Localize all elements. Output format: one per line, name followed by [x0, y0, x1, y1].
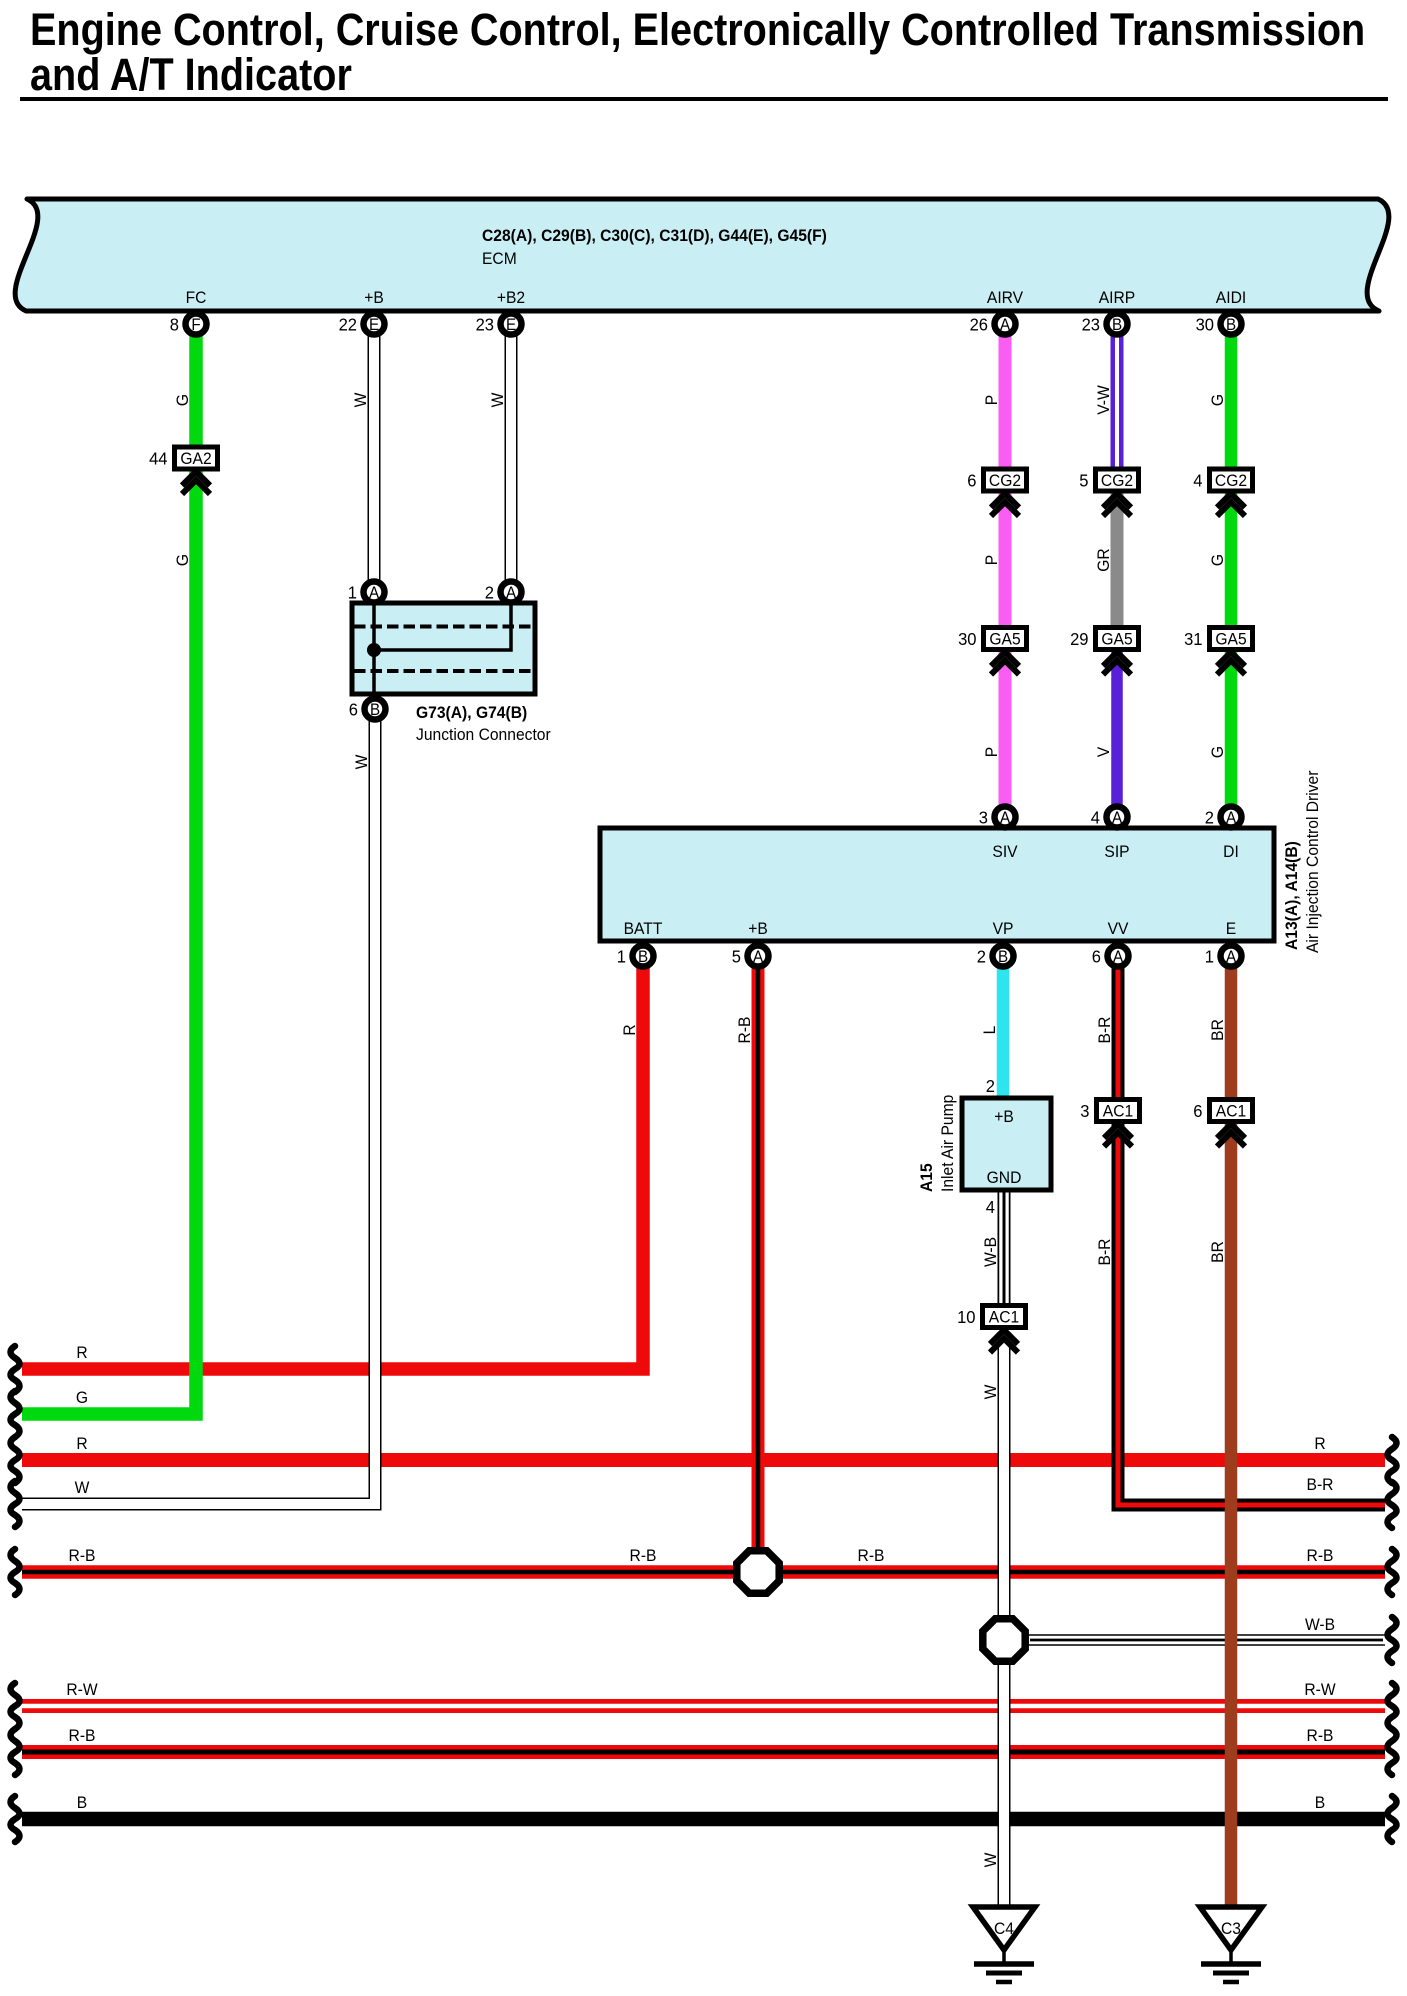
connector 3 AC1 — [1080, 1100, 1139, 1122]
svg-text:L: L — [980, 1026, 999, 1035]
svg-text:B: B — [638, 948, 648, 966]
A13 side label — [1282, 770, 1322, 953]
svg-text:R: R — [76, 1434, 87, 1453]
svg-text:V: V — [1094, 747, 1113, 758]
wire W-B A15 GND to AC1 — [998, 1190, 1011, 1308]
svg-text:F: F — [191, 316, 201, 334]
connector 29 GA5 — [1070, 628, 1138, 650]
svg-text:B: B — [998, 948, 1008, 966]
svg-text:E: E — [506, 316, 516, 334]
svg-text:SIV: SIV — [992, 842, 1017, 861]
svg-text:A: A — [753, 948, 764, 966]
svg-text:W: W — [981, 1852, 1000, 1867]
svg-text:29: 29 — [1070, 628, 1088, 649]
svg-text:R-B: R-B — [1307, 1546, 1334, 1565]
svg-text:1: 1 — [1205, 946, 1214, 967]
A13 pin 1B BATT — [617, 946, 654, 967]
svg-text:B: B — [1226, 316, 1236, 334]
svg-text:SIP: SIP — [1104, 842, 1129, 861]
wire W-B bus — [1004, 1636, 1387, 1644]
svg-text:R-B: R-B — [69, 1726, 96, 1745]
svg-text:DI: DI — [1223, 842, 1239, 861]
svg-text:AC1: AC1 — [1103, 1102, 1133, 1121]
svg-text:A13(A), A14(B): A13(A), A14(B) — [1282, 841, 1301, 950]
svg-text:W-B: W-B — [981, 1237, 1000, 1267]
A13/A14 Air Injection Control Driver box — [600, 828, 1274, 941]
wire P AIRV — [999, 324, 1012, 817]
ECM pin 23E — [476, 314, 522, 335]
svg-text:B-R: B-R — [1095, 1016, 1114, 1043]
svg-text:R-W: R-W — [1304, 1680, 1336, 1699]
wire R bus to A13 BATT — [22, 956, 643, 1369]
svg-text:6: 6 — [349, 699, 358, 720]
A13 pin 2A DI — [1205, 807, 1242, 828]
svg-text:W: W — [488, 392, 507, 407]
junction connector pin 6B — [349, 699, 386, 720]
svg-text:C3: C3 — [1221, 1919, 1241, 1938]
A13 pin 5A +B — [732, 946, 769, 967]
ECM pin 26A — [970, 314, 1016, 335]
junction connector pin 2A — [485, 582, 522, 603]
svg-text:GA2: GA2 — [180, 449, 211, 468]
svg-text:3: 3 — [1080, 1100, 1089, 1121]
svg-text:AC1: AC1 — [1216, 1102, 1246, 1121]
chevron below 29 GA5 — [1103, 652, 1131, 675]
svg-text:B-R: B-R — [1307, 1475, 1334, 1494]
ECM pin 23B — [1082, 314, 1128, 335]
svg-text:W: W — [352, 754, 371, 769]
connector 6 AC1 — [1193, 1100, 1252, 1122]
connector 5 CG2 — [1079, 469, 1138, 491]
svg-text:BR: BR — [1208, 1019, 1227, 1041]
rotated wire color labels — [173, 385, 1227, 1868]
wire R bus full width — [22, 1453, 1385, 1467]
svg-text:P: P — [982, 395, 1001, 406]
svg-text:G: G — [1208, 746, 1227, 758]
svg-text:A: A — [1226, 948, 1237, 966]
svg-text:A: A — [1226, 809, 1237, 827]
wire W below AC1 to ground C4 — [998, 1332, 1011, 1907]
junction octagon on W-B bus — [983, 1619, 1025, 1661]
svg-text:R-W: R-W — [66, 1680, 98, 1699]
svg-text:VV: VV — [1108, 919, 1129, 938]
wire W ECM pin 22E to junction pin 1A — [368, 324, 381, 592]
svg-text:W-B: W-B — [1305, 1615, 1335, 1634]
ECM pin 22E — [339, 314, 385, 335]
svg-text:26: 26 — [970, 314, 988, 335]
svg-text:4: 4 — [1193, 470, 1203, 491]
svg-text:AIRV: AIRV — [987, 288, 1023, 307]
svg-text:A: A — [1000, 316, 1011, 334]
svg-text:B-R: B-R — [1095, 1238, 1114, 1265]
A15 side label — [917, 1095, 957, 1192]
bus color labels — [66, 1343, 1336, 1812]
svg-text:R: R — [1314, 1434, 1325, 1453]
svg-text:AIDI: AIDI — [1216, 288, 1246, 307]
svg-text:8: 8 — [170, 314, 179, 335]
svg-text:A: A — [506, 584, 517, 602]
svg-text:G: G — [1208, 554, 1227, 566]
wire B bus — [22, 1812, 1385, 1827]
wire W ECM pin 23E to junction pin 2A — [505, 324, 518, 592]
svg-text:2: 2 — [485, 582, 494, 603]
chevron below 3 AC1 — [1104, 1124, 1132, 1147]
A13 pin 3A SIV — [979, 807, 1016, 828]
svg-text:2: 2 — [1205, 807, 1214, 828]
svg-text:R: R — [620, 1024, 639, 1035]
svg-text:1: 1 — [617, 946, 626, 967]
svg-text:B: B — [77, 1793, 88, 1812]
svg-text:BATT: BATT — [624, 919, 663, 938]
wire V-W AIRP upper — [1111, 324, 1124, 478]
svg-text:Engine Control, Cruise Control: Engine Control, Cruise Control, Electron… — [30, 5, 1365, 55]
ground C3 — [1200, 1907, 1262, 1982]
svg-text:FC: FC — [186, 288, 207, 307]
svg-text:ECM: ECM — [482, 249, 517, 268]
svg-text:6: 6 — [967, 470, 976, 491]
svg-text:P: P — [982, 747, 1001, 758]
svg-text:R-B: R-B — [630, 1546, 657, 1565]
wire W bus to junction connector pin 6B — [20, 709, 375, 1509]
svg-text:GA5: GA5 — [1101, 630, 1132, 649]
svg-text:R-B: R-B — [69, 1546, 96, 1565]
ECM pin 8F — [170, 314, 207, 335]
svg-text:G: G — [173, 554, 192, 566]
svg-text:GR: GR — [1094, 548, 1113, 572]
junction connector pin 1A — [348, 582, 385, 603]
ECM box — [15, 199, 1389, 311]
svg-text:6: 6 — [1092, 946, 1101, 967]
svg-text:W: W — [351, 392, 370, 407]
connector 30 GA5 — [958, 628, 1026, 650]
svg-text:C4: C4 — [994, 1919, 1014, 1938]
svg-text:Air Injection Control Driver: Air Injection Control Driver — [1303, 770, 1322, 953]
svg-text:E: E — [1226, 919, 1237, 938]
svg-text:31: 31 — [1184, 628, 1202, 649]
svg-text:B: B — [1112, 316, 1122, 334]
svg-text:CG2: CG2 — [1101, 471, 1133, 490]
svg-text:23: 23 — [1082, 314, 1100, 335]
connector 6 CG2 — [967, 469, 1026, 491]
svg-text:+B: +B — [748, 919, 768, 938]
svg-text:+B2: +B2 — [497, 288, 525, 307]
A15 Inlet Air Pump box — [962, 1075, 1051, 1217]
svg-text:G: G — [173, 394, 192, 406]
svg-text:R-B: R-B — [735, 1016, 754, 1043]
svg-text:W: W — [75, 1478, 90, 1497]
svg-text:A: A — [1112, 809, 1123, 827]
chevron below 30 GA5 — [991, 652, 1019, 675]
A13 pin 2B VP — [977, 946, 1014, 967]
wire GR AIRP middle — [1111, 478, 1124, 640]
svg-text:G73(A), G74(B): G73(A), G74(B) — [416, 703, 527, 722]
svg-text:R-B: R-B — [1307, 1726, 1334, 1745]
title rule — [20, 97, 1388, 101]
svg-text:2: 2 — [986, 1075, 995, 1096]
svg-text:10: 10 — [957, 1306, 975, 1327]
wire R-B bus lower — [22, 1745, 1385, 1759]
wire B-R A13 VV to right edge — [1118, 956, 1385, 1505]
svg-text:GA5: GA5 — [1215, 630, 1246, 649]
ground C4 — [973, 1907, 1035, 1982]
svg-text:B: B — [370, 701, 380, 719]
junction connector label — [416, 703, 551, 744]
svg-text:+B: +B — [994, 1107, 1014, 1126]
junction connector G73/G74 box — [352, 603, 535, 694]
svg-text:CG2: CG2 — [1215, 471, 1247, 490]
svg-text:AIRP: AIRP — [1099, 288, 1136, 307]
wire R-B bus — [22, 1565, 1385, 1579]
junction octagon on R-B bus — [737, 1551, 779, 1593]
svg-text:30: 30 — [1196, 314, 1214, 335]
svg-text:C28(A), C29(B), C30(C), C31(D): C28(A), C29(B), C30(C), C31(D), G44(E), … — [482, 226, 827, 245]
wire L VP to A15 — [997, 956, 1010, 1098]
svg-text:23: 23 — [476, 314, 494, 335]
wire G bus / ECM FC wire — [22, 324, 196, 1414]
svg-text:A: A — [1000, 809, 1011, 827]
torn edges right — [1388, 1437, 1397, 1842]
chevron below 10 AC1 — [990, 1330, 1018, 1353]
svg-text:22: 22 — [339, 314, 357, 335]
svg-text:4: 4 — [986, 1196, 996, 1217]
chevron below GA2 — [182, 472, 210, 495]
connector 10 AC1 — [957, 1306, 1025, 1328]
svg-text:4: 4 — [1091, 807, 1101, 828]
ECM pin 30B — [1196, 314, 1242, 335]
wire G AIDI — [1225, 324, 1238, 817]
connector 4 CG2 — [1193, 469, 1252, 491]
svg-text:6: 6 — [1193, 1100, 1202, 1121]
svg-text:44: 44 — [149, 448, 168, 469]
svg-text:W: W — [981, 1384, 1000, 1399]
svg-text:B: B — [1315, 1793, 1326, 1812]
svg-text:CG2: CG2 — [989, 471, 1021, 490]
chevron below 4 CG2 — [1217, 494, 1245, 517]
wire V AIRP lower — [1111, 640, 1123, 817]
chevron below 6 CG2 — [991, 494, 1019, 517]
svg-text:A: A — [369, 584, 380, 602]
svg-text:+B: +B — [364, 288, 384, 307]
svg-text:AC1: AC1 — [989, 1308, 1019, 1327]
svg-text:5: 5 — [1079, 470, 1088, 491]
svg-text:2: 2 — [977, 946, 986, 967]
svg-text:V-W: V-W — [1094, 385, 1113, 415]
svg-text:GND: GND — [987, 1168, 1022, 1187]
connector 44 GA2 — [149, 447, 217, 469]
svg-text:and A/T Indicator: and A/T Indicator — [30, 50, 352, 100]
A13 pin 1A E — [1205, 946, 1242, 967]
svg-text:30: 30 — [958, 628, 976, 649]
wire BR A13 E to ground C3 — [1225, 956, 1238, 1907]
A13 pin 6A VV — [1092, 946, 1129, 967]
chevron below 6 AC1 — [1217, 1124, 1245, 1147]
svg-text:1: 1 — [348, 582, 357, 603]
svg-text:GA5: GA5 — [989, 630, 1020, 649]
torn edges left — [11, 1346, 20, 1842]
connector 31 GA5 — [1184, 628, 1252, 650]
svg-text:3: 3 — [979, 807, 988, 828]
title text — [30, 5, 1365, 100]
svg-text:E: E — [369, 316, 379, 334]
chevron below 5 CG2 — [1103, 494, 1131, 517]
svg-text:Junction Connector: Junction Connector — [416, 725, 551, 744]
svg-text:A15: A15 — [917, 1163, 936, 1192]
svg-text:Inlet Air Pump: Inlet Air Pump — [938, 1095, 957, 1192]
svg-text:P: P — [982, 555, 1001, 566]
svg-text:R: R — [76, 1343, 87, 1362]
svg-text:BR: BR — [1208, 1241, 1227, 1263]
A13 pin 4A SIP — [1091, 807, 1128, 828]
wire R-B A13 +B to junction octagon — [752, 956, 765, 1555]
svg-text:5: 5 — [732, 946, 741, 967]
svg-text:A: A — [1113, 948, 1124, 966]
svg-text:VP: VP — [993, 919, 1014, 938]
svg-text:R-B: R-B — [858, 1546, 885, 1565]
svg-text:G: G — [1208, 394, 1227, 406]
chevron below 31 GA5 — [1217, 652, 1245, 675]
wire R-W bus — [22, 1699, 1385, 1713]
svg-text:G: G — [76, 1388, 88, 1407]
